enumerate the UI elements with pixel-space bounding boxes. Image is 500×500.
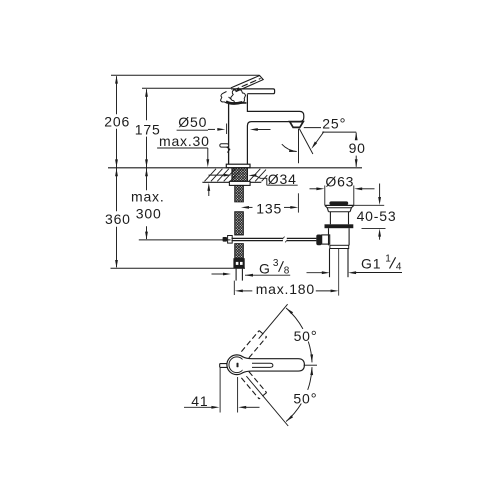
- extension line at handle top (175 reference): [142, 87, 231, 89]
- top view spout stub: [220, 364, 228, 368]
- svg-text:360: 360: [105, 211, 131, 227]
- extension lines for Ø63: [325, 186, 354, 206]
- 25 degree spray angle indicator: [282, 128, 356, 164]
- supply tube: [236, 269, 242, 281]
- svg-text:40-53: 40-53: [357, 208, 397, 224]
- pop-up rod: [232, 237, 317, 243]
- label 175: [135, 121, 161, 137]
- label Ø63: [325, 173, 354, 189]
- label 40-53: [357, 208, 397, 224]
- label 360: [105, 211, 131, 227]
- svg-text:90: 90: [349, 140, 366, 156]
- faucet body and spout: [228, 94, 304, 164]
- svg-text:50°: 50°: [293, 390, 317, 407]
- countertop hatching left: [205, 169, 242, 182]
- lever rotated +50° (dashed): [241, 331, 266, 358]
- freehand break cloud at pivot: [221, 90, 246, 104]
- threaded shank: [232, 168, 248, 182]
- top view body circle: [227, 355, 247, 375]
- drain body: [329, 228, 350, 248]
- lever rotated -50° (dashed): [241, 372, 266, 399]
- dimension 41: [184, 406, 260, 409]
- dimension 90: [355, 132, 358, 167]
- svg-text:G1: G1: [361, 256, 381, 272]
- dimension line 175/max.300: [145, 89, 148, 240]
- hose end fitting G3/8: [233, 258, 244, 268]
- 360 reference line: [111, 267, 246, 269]
- label Ø34: [268, 171, 297, 187]
- extension line handle center (41): [237, 377, 239, 413]
- label 50° upper: [294, 328, 318, 345]
- label max.30: [159, 133, 210, 149]
- svg-text:4: 4: [396, 261, 402, 272]
- svg-text:135: 135: [256, 200, 282, 216]
- angle leg upper: [259, 304, 288, 339]
- label 50° lower: [293, 390, 317, 407]
- flexible supply hose: [235, 185, 244, 258]
- dimension Ø63: [310, 187, 375, 190]
- lever tip extension line: [304, 364, 317, 366]
- svg-text:Ø63: Ø63: [325, 173, 354, 189]
- rod clevis at faucet: [223, 236, 233, 244]
- drain plug cap: [329, 201, 348, 205]
- svg-text:8: 8: [284, 266, 290, 277]
- lever handle raised position: [231, 76, 263, 92]
- max.300 reference line: [139, 239, 231, 241]
- drain centerline: [338, 249, 340, 296]
- svg-text:300: 300: [136, 206, 162, 222]
- svg-text:25°: 25°: [322, 115, 346, 132]
- dimension 40-53: [354, 184, 386, 240]
- extension line spout tip (41): [219, 368, 221, 413]
- drain flange: [325, 205, 354, 224]
- svg-text:max.: max.: [131, 188, 165, 204]
- dimension Ø50: [177, 124, 271, 135]
- rod clevis at drain: [322, 235, 330, 244]
- label 25°: [322, 115, 346, 132]
- label G3/8: [259, 258, 290, 277]
- drain gasket ring: [325, 224, 354, 228]
- svg-text:G: G: [259, 261, 271, 277]
- top view lever: [243, 357, 305, 373]
- dimension max.30: [157, 148, 210, 196]
- lever handle horizontal position: [231, 89, 275, 94]
- label Ø50: [178, 114, 207, 130]
- label 135: [256, 200, 282, 216]
- label 90: [349, 140, 366, 156]
- mounting nut: [229, 181, 250, 185]
- dimension Ø34: [209, 174, 298, 186]
- countertop surface line: [108, 167, 362, 169]
- dimension G3/8: [212, 273, 291, 277]
- dimension 135: [241, 193, 298, 212]
- svg-text:50°: 50°: [294, 328, 318, 345]
- label 206: [104, 114, 130, 130]
- label max.180: [256, 281, 315, 297]
- dimension G1 1/4: [307, 271, 403, 274]
- angle arc upper 50°: [286, 308, 313, 362]
- svg-text:3: 3: [273, 258, 279, 269]
- label 41: [191, 393, 208, 409]
- svg-text:41: 41: [191, 393, 208, 409]
- svg-text:max.30: max.30: [159, 133, 210, 149]
- countertop hatching right: [249, 169, 267, 182]
- svg-text:Ø50: Ø50: [178, 114, 207, 130]
- countertop underside line: [202, 181, 261, 183]
- pop-up pull rod knob: [220, 144, 230, 153]
- cartridge stem mark: [237, 363, 239, 367]
- aerator: [290, 122, 304, 128]
- svg-text:175: 175: [135, 121, 161, 137]
- base flange: [226, 164, 250, 168]
- drain tailpipe: [330, 249, 349, 278]
- svg-text:1: 1: [385, 254, 391, 265]
- label max. 300: [131, 188, 165, 221]
- angle leg lower: [246, 376, 288, 426]
- svg-text:Ø34: Ø34: [268, 171, 297, 187]
- dimension line 206/360: [115, 76, 118, 268]
- dimension max.180: [234, 281, 338, 295]
- rod ball joint: [316, 235, 321, 246]
- svg-text:206: 206: [104, 114, 130, 130]
- angle arc lower 50°: [286, 367, 313, 421]
- extension line at lever tip (206 reference): [111, 74, 260, 76]
- label G1 1/4: [361, 254, 402, 273]
- svg-text:max.180: max.180: [256, 281, 315, 297]
